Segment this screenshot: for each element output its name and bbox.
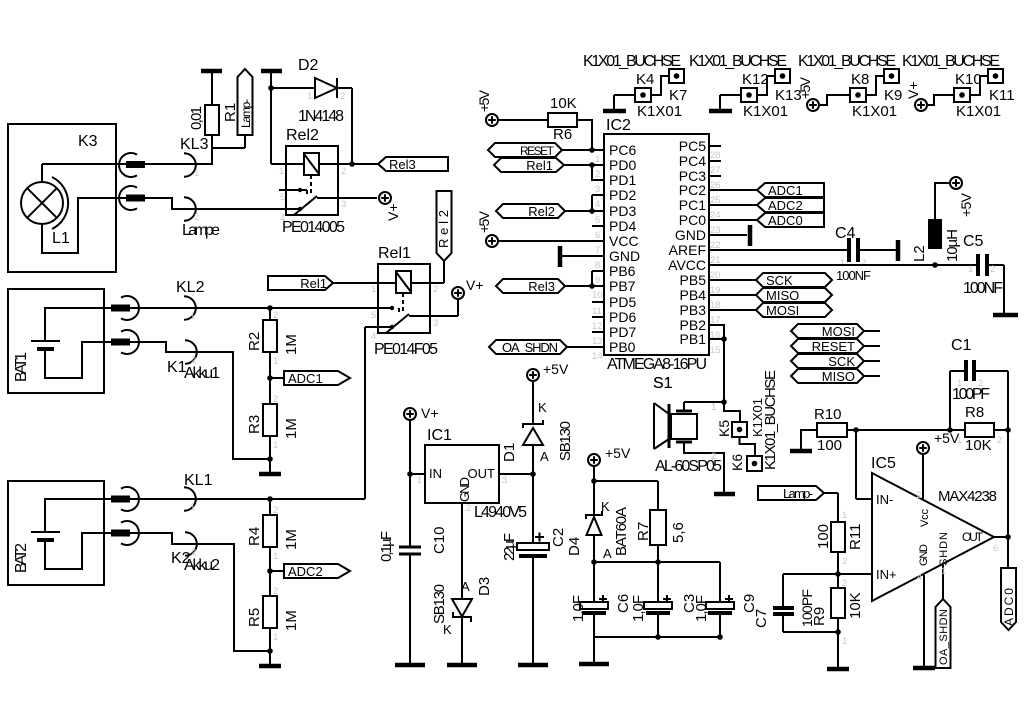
svg-text:C4: C4 bbox=[835, 225, 856, 242]
svg-text:R5: R5 bbox=[246, 608, 263, 627]
svg-text:1: 1 bbox=[273, 632, 278, 643]
svg-text:L1: L1 bbox=[52, 230, 70, 247]
svg-text:ADC1: ADC1 bbox=[288, 371, 323, 386]
svg-text:1: 1 bbox=[595, 154, 600, 165]
svg-text:22: 22 bbox=[710, 240, 721, 251]
svg-text:K1X01_BUCHSE: K1X01_BUCHSE bbox=[689, 53, 787, 70]
svg-text:0,1µF: 0,1µF bbox=[378, 531, 395, 562]
svg-text:PB6: PB6 bbox=[609, 263, 636, 279]
svg-text:PD1: PD1 bbox=[609, 172, 636, 188]
svg-text:17: 17 bbox=[710, 315, 721, 326]
svg-text:SB130: SB130 bbox=[431, 584, 448, 624]
svg-text:15: 15 bbox=[710, 345, 721, 356]
svg-text:MISO: MISO bbox=[822, 369, 855, 384]
svg-text:IN-: IN- bbox=[876, 492, 893, 507]
svg-text:K1X01: K1X01 bbox=[956, 103, 1001, 120]
svg-text:4: 4 bbox=[917, 572, 922, 583]
svg-text:3: 3 bbox=[341, 199, 346, 210]
svg-text:PC0: PC0 bbox=[679, 212, 706, 228]
svg-text:BAT1: BAT1 bbox=[13, 352, 30, 382]
svg-text:SHDN: SHDN bbox=[938, 532, 950, 566]
svg-text:K1X01_BUCHSE: K1X01_BUCHSE bbox=[762, 370, 779, 470]
svg-text:10K: 10K bbox=[965, 437, 992, 454]
svg-text:ATMEGA8-16PU: ATMEGA8-16PU bbox=[607, 356, 707, 373]
svg-text:L2: L2 bbox=[911, 245, 928, 262]
svg-text:1: 1 bbox=[190, 311, 195, 322]
svg-text:23: 23 bbox=[710, 225, 721, 236]
svg-text:V+: V+ bbox=[905, 81, 921, 99]
svg-text:PB4: PB4 bbox=[680, 287, 707, 303]
svg-text:AREF: AREF bbox=[669, 242, 706, 258]
svg-text:2: 2 bbox=[273, 394, 278, 405]
svg-text:PD5: PD5 bbox=[609, 294, 636, 310]
svg-text:Lamp-: Lamp- bbox=[239, 99, 253, 128]
svg-text:12: 12 bbox=[592, 321, 603, 332]
svg-text:27: 27 bbox=[710, 165, 721, 176]
svg-text:K: K bbox=[538, 400, 547, 415]
svg-text:0,01: 0,01 bbox=[188, 106, 205, 130]
svg-text:22µF: 22µF bbox=[501, 533, 518, 561]
svg-text:VCC: VCC bbox=[609, 233, 639, 249]
svg-text:ADC2: ADC2 bbox=[768, 198, 803, 213]
svg-text:ADC0: ADC0 bbox=[768, 213, 803, 228]
svg-text:R10: R10 bbox=[814, 406, 842, 423]
svg-text:21: 21 bbox=[710, 255, 721, 266]
svg-text:100NF: 100NF bbox=[963, 280, 1003, 297]
svg-text:BAT2: BAT2 bbox=[13, 543, 30, 573]
svg-text:R8: R8 bbox=[965, 404, 984, 421]
svg-text:Rel2: Rel2 bbox=[286, 127, 319, 144]
svg-text:PE014F05: PE014F05 bbox=[374, 341, 438, 358]
svg-text:AL-60SP05: AL-60SP05 bbox=[655, 458, 722, 475]
svg-text:PC4: PC4 bbox=[679, 153, 706, 169]
svg-text:1N4148: 1N4148 bbox=[298, 108, 344, 125]
svg-text:PD3: PD3 bbox=[609, 203, 636, 219]
svg-text:PD0: PD0 bbox=[609, 157, 636, 173]
svg-text:K1X01: K1X01 bbox=[852, 103, 897, 120]
svg-text:D4: D4 bbox=[566, 537, 583, 556]
svg-text:3: 3 bbox=[433, 318, 438, 329]
svg-text:IC2: IC2 bbox=[606, 117, 631, 134]
svg-text:1: 1 bbox=[957, 378, 962, 389]
svg-text:+5V: +5V bbox=[934, 430, 960, 446]
svg-text:10K: 10K bbox=[550, 95, 577, 112]
svg-text:K4: K4 bbox=[636, 71, 654, 88]
svg-text:26: 26 bbox=[710, 180, 721, 191]
svg-text:5: 5 bbox=[280, 192, 285, 203]
svg-text:IN+: IN+ bbox=[876, 567, 897, 582]
svg-text:1: 1 bbox=[194, 168, 199, 179]
svg-text:9: 9 bbox=[595, 275, 600, 286]
svg-text:GND: GND bbox=[457, 477, 472, 502]
svg-text:Rel3: Rel3 bbox=[528, 279, 555, 294]
svg-text:2: 2 bbox=[916, 490, 921, 501]
svg-text:4: 4 bbox=[595, 199, 600, 210]
svg-text:PB1: PB1 bbox=[680, 331, 707, 347]
svg-text:D2: D2 bbox=[298, 57, 319, 74]
svg-text:1M: 1M bbox=[283, 610, 300, 631]
svg-text:D3: D3 bbox=[476, 577, 493, 596]
svg-text:K1X01: K1X01 bbox=[637, 103, 682, 120]
svg-text:10: 10 bbox=[592, 290, 603, 301]
svg-text:2: 2 bbox=[842, 578, 847, 589]
svg-text:Lamp-: Lamp- bbox=[783, 486, 813, 501]
svg-text:IC1: IC1 bbox=[427, 427, 452, 444]
svg-text:AVCC: AVCC bbox=[668, 257, 706, 273]
svg-text:K1X01: K1X01 bbox=[743, 103, 788, 120]
svg-text:5: 5 bbox=[595, 215, 600, 226]
svg-text:2: 2 bbox=[273, 586, 278, 597]
svg-text:A: A bbox=[540, 449, 549, 464]
svg-text:2: 2 bbox=[978, 378, 983, 389]
svg-text:R3: R3 bbox=[246, 415, 263, 434]
svg-text:R1: R1 bbox=[222, 103, 239, 122]
svg-text:MAX4238: MAX4238 bbox=[938, 488, 997, 505]
svg-text:1: 1 bbox=[279, 166, 284, 177]
svg-text:2: 2 bbox=[861, 258, 866, 269]
svg-text:19: 19 bbox=[710, 285, 721, 296]
svg-text:2: 2 bbox=[194, 212, 199, 223]
svg-text:8: 8 bbox=[595, 260, 600, 271]
svg-text:K7: K7 bbox=[669, 87, 687, 104]
svg-text:1M: 1M bbox=[283, 418, 300, 439]
svg-text:OA_SHDN: OA_SHDN bbox=[502, 340, 558, 355]
svg-text:R7: R7 bbox=[635, 522, 652, 541]
svg-text:A: A bbox=[603, 546, 612, 561]
svg-text:1: 1 bbox=[711, 402, 716, 413]
svg-text:2: 2 bbox=[466, 503, 471, 514]
svg-text:20: 20 bbox=[710, 270, 721, 281]
svg-text:5: 5 bbox=[371, 310, 376, 321]
svg-text:R2: R2 bbox=[246, 332, 263, 351]
svg-text:PC2: PC2 bbox=[679, 182, 706, 198]
svg-text:C10: C10 bbox=[431, 526, 448, 554]
svg-text:2: 2 bbox=[433, 284, 438, 295]
svg-text:K1X01_BUCHSE: K1X01_BUCHSE bbox=[583, 53, 681, 70]
svg-text:PB5: PB5 bbox=[680, 272, 707, 288]
svg-text:L4940V5: L4940V5 bbox=[474, 504, 527, 521]
svg-text:C1: C1 bbox=[951, 337, 972, 354]
svg-text:2: 2 bbox=[191, 547, 196, 558]
svg-text:Akku1: Akku1 bbox=[184, 365, 220, 382]
svg-text:2: 2 bbox=[341, 166, 346, 177]
svg-text:2: 2 bbox=[595, 169, 600, 180]
svg-text:MOSI: MOSI bbox=[766, 303, 799, 318]
svg-text:PC1: PC1 bbox=[679, 197, 706, 213]
svg-text:PD2: PD2 bbox=[609, 187, 636, 203]
svg-text:OA_SHDN: OA_SHDN bbox=[938, 609, 950, 665]
svg-text:4: 4 bbox=[371, 331, 376, 342]
svg-text:+5V: +5V bbox=[958, 192, 974, 217]
svg-text:R9: R9 bbox=[811, 607, 828, 626]
svg-text:V+: V+ bbox=[385, 203, 401, 221]
svg-text:PD6: PD6 bbox=[609, 309, 636, 325]
svg-text:1,0F: 1,0F bbox=[693, 595, 710, 622]
svg-text:K1X01_BUCHSE: K1X01_BUCHSE bbox=[798, 53, 896, 70]
svg-text:2: 2 bbox=[340, 91, 345, 102]
svg-text:2: 2 bbox=[273, 505, 278, 516]
svg-text:KL1: KL1 bbox=[184, 472, 213, 489]
svg-text:1: 1 bbox=[941, 566, 946, 577]
svg-text:Vcc: Vcc bbox=[919, 509, 931, 528]
svg-text:5,6: 5,6 bbox=[670, 522, 687, 543]
svg-text:C7: C7 bbox=[753, 609, 770, 628]
svg-text:OUT: OUT bbox=[962, 530, 984, 544]
svg-text:MISO: MISO bbox=[766, 288, 799, 303]
svg-text:1: 1 bbox=[842, 636, 847, 647]
svg-text:D1: D1 bbox=[501, 443, 518, 462]
svg-text:K10: K10 bbox=[955, 71, 982, 88]
svg-text:V+: V+ bbox=[421, 405, 439, 421]
svg-text:PD4: PD4 bbox=[609, 218, 636, 234]
svg-text:S1: S1 bbox=[653, 375, 673, 392]
svg-text:+5V: +5V bbox=[605, 445, 631, 461]
svg-text:28: 28 bbox=[710, 150, 721, 161]
svg-text:4: 4 bbox=[280, 213, 285, 224]
svg-text:SCK: SCK bbox=[828, 354, 855, 369]
svg-text:PB7: PB7 bbox=[609, 278, 636, 294]
svg-text:2: 2 bbox=[273, 310, 278, 321]
svg-text:PC5: PC5 bbox=[679, 138, 706, 154]
svg-text:IC5: IC5 bbox=[871, 455, 896, 472]
svg-text:Rel1: Rel1 bbox=[526, 158, 553, 173]
svg-text:16: 16 bbox=[710, 330, 721, 341]
svg-text:V+: V+ bbox=[466, 277, 484, 293]
svg-text:11: 11 bbox=[592, 306, 602, 317]
svg-text:RESET: RESET bbox=[812, 339, 855, 354]
svg-text:10µH: 10µH bbox=[944, 229, 961, 262]
svg-text:Rel2: Rel2 bbox=[436, 210, 451, 248]
svg-text:100: 100 bbox=[815, 524, 832, 549]
svg-text:7: 7 bbox=[595, 245, 600, 256]
svg-text:C5: C5 bbox=[963, 233, 984, 250]
svg-text:13: 13 bbox=[592, 336, 603, 347]
svg-text:1: 1 bbox=[371, 284, 376, 295]
svg-text:PD7: PD7 bbox=[609, 324, 636, 340]
svg-text:K12: K12 bbox=[742, 71, 769, 88]
svg-text:1,0F: 1,0F bbox=[570, 595, 587, 622]
svg-text:Lampe: Lampe bbox=[182, 222, 220, 239]
svg-text:+5V: +5V bbox=[476, 210, 492, 233]
svg-text:K6: K6 bbox=[729, 454, 745, 471]
svg-text:PC6: PC6 bbox=[609, 142, 636, 158]
svg-text:SB130: SB130 bbox=[557, 421, 574, 461]
svg-text:+5V: +5V bbox=[476, 89, 492, 112]
svg-text:+5V: +5V bbox=[543, 361, 569, 377]
svg-text:6: 6 bbox=[993, 543, 998, 554]
svg-text:2: 2 bbox=[191, 355, 196, 366]
svg-text:1: 1 bbox=[968, 264, 973, 275]
svg-text:1: 1 bbox=[190, 502, 195, 513]
svg-text:K9: K9 bbox=[884, 87, 902, 104]
svg-text:Rel2: Rel2 bbox=[528, 204, 555, 219]
svg-text:1: 1 bbox=[273, 356, 278, 367]
svg-text:1: 1 bbox=[273, 551, 278, 562]
svg-text:100NF: 100NF bbox=[836, 268, 871, 283]
svg-text:SCK: SCK bbox=[766, 273, 793, 288]
svg-text:14: 14 bbox=[592, 351, 603, 362]
svg-text:2: 2 bbox=[990, 264, 995, 275]
svg-text:1,0F: 1,0F bbox=[630, 595, 647, 622]
svg-text:Rel1: Rel1 bbox=[378, 245, 411, 262]
svg-text:10K: 10K bbox=[847, 592, 864, 619]
svg-text:A: A bbox=[461, 579, 470, 594]
svg-text:Rel1: Rel1 bbox=[300, 276, 327, 291]
svg-text:1: 1 bbox=[417, 475, 422, 486]
svg-text:PE014005: PE014005 bbox=[282, 219, 345, 236]
svg-text:3: 3 bbox=[502, 475, 507, 486]
svg-text:25: 25 bbox=[710, 195, 721, 206]
svg-text:KL2: KL2 bbox=[176, 279, 205, 296]
svg-text:3: 3 bbox=[595, 184, 600, 195]
svg-text:K5: K5 bbox=[716, 420, 732, 437]
svg-text:R4: R4 bbox=[246, 527, 263, 546]
svg-text:K: K bbox=[601, 499, 610, 514]
svg-text:100: 100 bbox=[817, 437, 842, 454]
svg-text:1: 1 bbox=[842, 510, 847, 521]
svg-text:GND: GND bbox=[609, 248, 640, 264]
svg-text:R11: R11 bbox=[847, 524, 864, 550]
svg-text:18: 18 bbox=[710, 300, 721, 311]
svg-text:GND: GND bbox=[675, 227, 706, 243]
svg-text:1M: 1M bbox=[283, 529, 300, 550]
svg-text:MOSI: MOSI bbox=[822, 324, 855, 339]
svg-text:K3: K3 bbox=[78, 133, 98, 150]
svg-text:2: 2 bbox=[842, 556, 847, 567]
svg-text:1: 1 bbox=[307, 91, 312, 102]
svg-text:+5V: +5V bbox=[797, 76, 813, 99]
svg-text:K11: K11 bbox=[989, 87, 1015, 104]
svg-text:PB0: PB0 bbox=[609, 339, 636, 355]
svg-text:K1X01_BUCHSE: K1X01_BUCHSE bbox=[902, 53, 1000, 70]
svg-text:ADC2: ADC2 bbox=[288, 564, 323, 579]
svg-text:C2: C2 bbox=[550, 528, 567, 547]
svg-text:2: 2 bbox=[997, 435, 1002, 446]
svg-text:BAT60A: BAT60A bbox=[613, 507, 630, 556]
svg-text:Akku2: Akku2 bbox=[184, 557, 220, 574]
svg-text:GND: GND bbox=[918, 544, 930, 566]
svg-text:RESET: RESET bbox=[520, 144, 555, 158]
svg-text:1: 1 bbox=[273, 440, 278, 451]
svg-text:ADC1: ADC1 bbox=[768, 183, 803, 198]
svg-text:KL3: KL3 bbox=[180, 136, 209, 153]
svg-text:6: 6 bbox=[595, 230, 600, 241]
svg-text:Rel3: Rel3 bbox=[389, 157, 416, 172]
svg-text:24: 24 bbox=[710, 210, 721, 221]
svg-text:R6: R6 bbox=[553, 126, 572, 143]
svg-text:PB3: PB3 bbox=[680, 302, 707, 318]
svg-text:1: 1 bbox=[840, 258, 845, 269]
svg-text:K8: K8 bbox=[851, 71, 869, 88]
svg-text:1M: 1M bbox=[283, 334, 300, 355]
svg-text:IN: IN bbox=[429, 466, 442, 481]
